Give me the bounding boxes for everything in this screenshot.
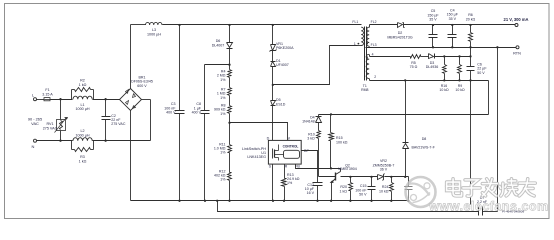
svg-text:275 VAC: 275 VAC <box>43 127 58 131</box>
wire bridge minus down <box>130 111 132 201</box>
svg-text:RM8: RM8 <box>361 88 368 92</box>
svg-text:21 V, 300 mA: 21 V, 300 mA <box>504 17 529 22</box>
capacitor C2 <box>105 100 107 117</box>
wire OVP rail <box>341 176 378 178</box>
svg-text:3 kΩ: 3 kΩ <box>307 137 315 141</box>
inductor L3 <box>146 22 163 25</box>
resistor R4 <box>228 70 232 78</box>
svg-text:3.15 A: 3.15 A <box>42 93 53 97</box>
svg-text:100 kΩ: 100 kΩ <box>336 140 348 144</box>
terminal L <box>34 98 37 101</box>
wire primary ground bus <box>131 200 409 202</box>
resistor R9 <box>458 55 460 57</box>
diode D4 <box>318 115 320 117</box>
svg-text:www.elecfans.com: www.elecfans.com <box>428 200 548 214</box>
svg-text:N: N <box>32 144 35 149</box>
resistor R5 <box>411 55 421 59</box>
wire lower rail <box>218 201 479 212</box>
output terminal <box>515 24 518 27</box>
node N-RV1 <box>59 140 61 142</box>
resistor R24 <box>390 176 392 178</box>
transformer T1 primary winding <box>361 27 363 45</box>
svg-text:1 kΩ: 1 kΩ <box>340 189 348 193</box>
wire output bus <box>404 24 517 26</box>
node VR1 <box>272 24 274 26</box>
svg-text:10 kΩ: 10 kΩ <box>379 189 389 193</box>
resistor R6 <box>469 24 471 26</box>
diode D6 <box>229 25 231 43</box>
wire L rail <box>37 99 45 101</box>
wire secondary return <box>497 48 499 212</box>
TVS VR1 <box>272 25 274 45</box>
wire top bus to transformer <box>163 24 362 26</box>
svg-text:400 V: 400 V <box>166 110 176 114</box>
resistor R8 <box>228 106 232 114</box>
svg-text:1%: 1% <box>220 96 226 100</box>
inductor L1 <box>73 96 92 99</box>
wire <box>94 99 120 101</box>
capacitor C7 Y-cap <box>478 207 480 216</box>
transformer core <box>364 27 366 81</box>
svg-text:1%: 1% <box>220 78 226 82</box>
svg-text:400 V: 400 V <box>192 110 202 114</box>
svg-text:D: D <box>267 136 270 140</box>
svg-text:1%: 1% <box>287 181 293 185</box>
resistor R10 <box>317 131 321 139</box>
node C2 top <box>104 98 106 100</box>
svg-text:50 V: 50 V <box>359 192 367 196</box>
node V divider <box>228 122 230 124</box>
svg-text:VAC: VAC <box>31 121 39 126</box>
wire bias rail <box>370 56 411 58</box>
svg-text:BAV21WS-7-F: BAV21WS-7-F <box>412 146 436 150</box>
svg-text:1 kΩ: 1 kΩ <box>79 83 87 87</box>
T1 pin stubs <box>358 45 362 47</box>
capacitor C5 <box>432 24 434 26</box>
svg-text:36 V: 36 V <box>380 168 388 172</box>
svg-text:CONTROL: CONTROL <box>283 145 299 149</box>
capacitor C6 <box>469 55 471 57</box>
svg-text:RTN: RTN <box>513 52 521 56</box>
svg-text:UF4007: UF4007 <box>276 63 289 67</box>
svg-text:4: 4 <box>372 53 374 57</box>
capacitor C14 <box>408 177 410 187</box>
svg-text:LNK413EG: LNK413EG <box>247 155 266 159</box>
wire bias sense rail <box>319 114 489 116</box>
wire bias to sense <box>488 81 490 115</box>
svg-text:600 V: 600 V <box>137 84 147 88</box>
diode D2 <box>398 23 403 28</box>
svg-text:1%: 1% <box>220 151 226 155</box>
svg-text:FL2: FL2 <box>371 20 377 24</box>
resistor R11 <box>228 145 232 153</box>
svg-text:D8: D8 <box>422 137 427 141</box>
diode D5 <box>271 101 276 106</box>
capacitor C8 <box>205 64 230 66</box>
watermark logo <box>406 177 436 207</box>
svg-text:10 kΩ: 10 kΩ <box>455 88 465 92</box>
wire drain to transformer pin1 <box>273 46 358 85</box>
resistor R2 <box>71 90 73 100</box>
wire <box>94 140 151 142</box>
svg-text:1 kΩ: 1 kΩ <box>79 160 87 164</box>
node drain <box>272 84 274 86</box>
IC U1 LinkSwitch-PH LNK413EG <box>268 140 301 164</box>
svg-text:MBRS4201T3G: MBRS4201T3G <box>387 35 413 39</box>
diode D1 <box>272 51 274 62</box>
svg-text:10 kΩ: 10 kΩ <box>439 88 449 92</box>
varistor RV1 <box>60 100 62 120</box>
bridge rectifier BR1 <box>120 89 142 111</box>
svg-text:MMBT3904: MMBT3904 <box>338 167 357 171</box>
svg-text:ES1D: ES1D <box>276 102 286 106</box>
T1 polarity dots <box>358 43 360 45</box>
svg-text:R: R <box>285 164 288 168</box>
svg-text:2: 2 <box>374 75 376 79</box>
wire <box>51 99 72 101</box>
svg-text:20 kΩ: 20 kΩ <box>466 17 476 21</box>
resistor R3 <box>71 141 73 150</box>
svg-text:P6KE200A: P6KE200A <box>276 46 294 50</box>
node R15 top <box>330 113 332 115</box>
node D6 <box>228 24 230 26</box>
svg-text:1: 1 <box>354 42 356 46</box>
wire BP pin <box>302 151 318 183</box>
svg-text:FL1: FL1 <box>352 20 358 24</box>
svg-text:1%: 1% <box>220 112 226 116</box>
diode D8 <box>404 176 406 178</box>
node C2 bottom <box>104 140 106 142</box>
resistor R15 <box>330 115 332 133</box>
svg-text:DL4007: DL4007 <box>212 43 225 47</box>
node C3 <box>178 24 180 26</box>
capacitor C4 <box>451 24 453 26</box>
inductor L2 <box>73 138 92 141</box>
svg-text:35 V: 35 V <box>429 17 437 21</box>
svg-text:35 V: 35 V <box>449 17 457 21</box>
svg-text:1N4148: 1N4148 <box>302 120 315 124</box>
svg-text:FL3: FL3 <box>371 43 377 47</box>
wire top bus <box>131 24 146 26</box>
wire V pin <box>230 123 288 141</box>
transistor Q2 MMBT3904 <box>319 176 336 178</box>
fuse F1 <box>44 98 50 101</box>
svg-text:1000 µH: 1000 µH <box>75 107 89 111</box>
wire N rail <box>37 140 72 142</box>
wire bridge AC right <box>142 99 151 101</box>
node R15 bottom <box>330 167 332 169</box>
RTN terminal <box>516 46 519 49</box>
watermark text dianzifashaoyou <box>447 179 462 196</box>
transformer secondary winding <box>367 27 369 46</box>
svg-text:BP: BP <box>304 149 309 153</box>
node L-RV1 <box>59 98 61 100</box>
wire RTN rail <box>366 47 517 49</box>
wire FB pin <box>296 165 341 169</box>
capacitor C15 <box>370 176 372 178</box>
svg-text:1%: 1% <box>220 178 226 182</box>
svg-text:DL4936: DL4936 <box>426 65 439 69</box>
capacitor C12 <box>313 182 323 184</box>
resistor R13 <box>284 165 286 179</box>
resistor R16 <box>443 55 445 57</box>
wire bias return <box>370 80 489 82</box>
resistor R7 <box>228 88 232 96</box>
svg-text:50 V: 50 V <box>477 71 485 75</box>
resistor R20 <box>349 176 351 178</box>
terminal N <box>34 139 37 142</box>
diode D3 <box>421 56 429 58</box>
capacitor C3 <box>179 25 181 111</box>
wire bridge plus up <box>130 25 132 89</box>
zener VR2 <box>378 175 384 180</box>
svg-text:275 VAC: 275 VAC <box>111 122 126 126</box>
svg-text:16 V: 16 V <box>307 191 315 195</box>
svg-text:1000 µH: 1000 µH <box>147 32 161 36</box>
node D6-C8 <box>228 64 230 66</box>
svg-text:75 Ω: 75 Ω <box>410 65 418 69</box>
resistor R12 <box>228 173 232 181</box>
transformer bias winding <box>366 54 369 78</box>
svg-text:1000 µH: 1000 µH <box>75 134 89 138</box>
wire S pin <box>272 165 274 201</box>
